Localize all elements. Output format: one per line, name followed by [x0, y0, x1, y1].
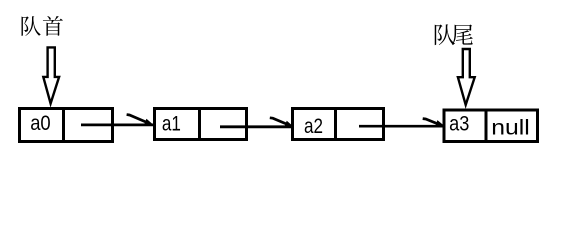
- node a0 divider: [62, 107, 65, 143]
- label "队尾" (queue tail): [435, 24, 473, 45]
- svg-text:null: null: [491, 115, 530, 140]
- label "队首" (queue head): [22, 16, 63, 36]
- pointer arrow a2 to a3: [423, 119, 443, 126]
- node a0 box: [20, 109, 113, 142]
- pointer line from a2: [359, 125, 444, 128]
- pointer arrow a0 to a1: [127, 115, 152, 125]
- svg-text:a0: a0: [30, 112, 51, 135]
- pointer line from a1: [220, 125, 293, 128]
- svg-text:a3: a3: [449, 113, 469, 136]
- node a3 box: [444, 110, 538, 142]
- pointer arrow a1 to a2: [270, 118, 292, 126]
- head block arrow (points to node a0): [43, 47, 59, 103]
- node a2 divider: [334, 107, 337, 141]
- pointer line from a0: [81, 124, 153, 127]
- svg-text:a1: a1: [162, 113, 181, 136]
- node a1 box: [155, 109, 247, 140]
- svg-text:a2: a2: [304, 115, 323, 138]
- node a1 divider: [198, 107, 201, 141]
- node a2 box: [293, 109, 384, 140]
- tail block arrow (points to node a3): [458, 49, 475, 105]
- node a3 divider: [485, 109, 488, 144]
